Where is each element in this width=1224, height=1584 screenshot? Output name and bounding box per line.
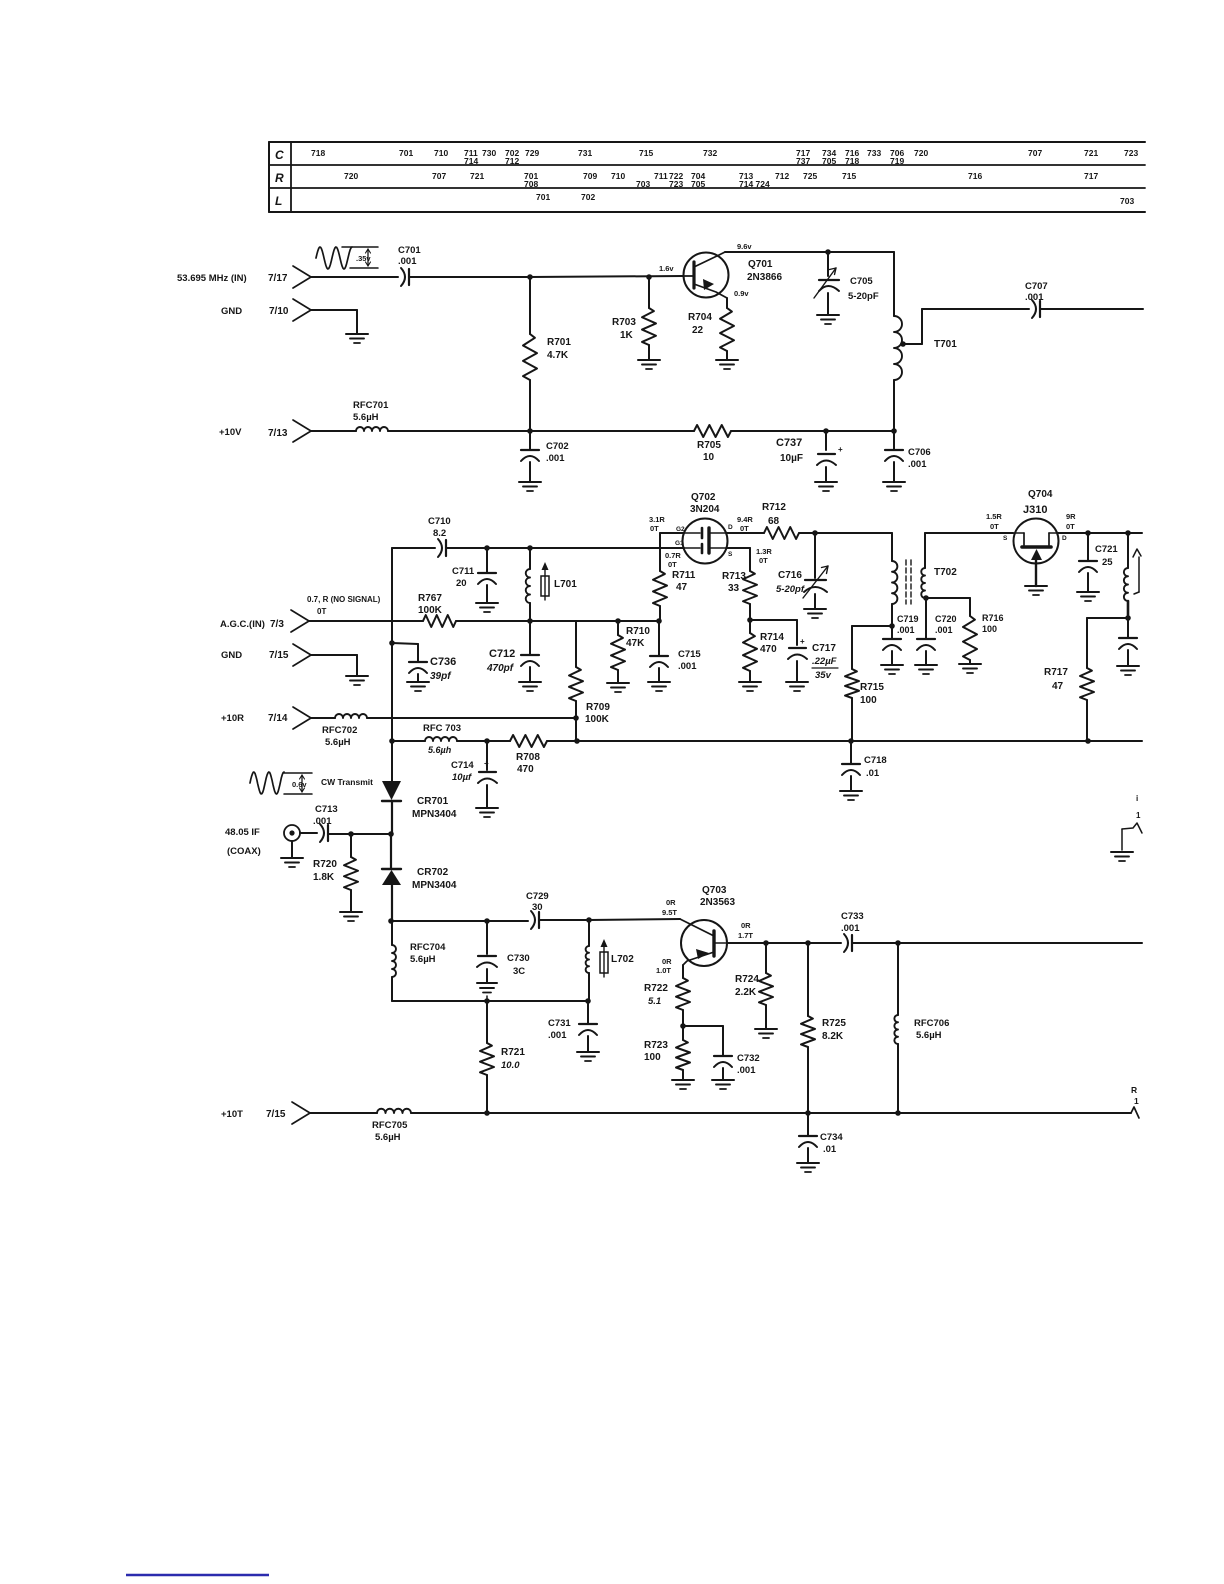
- connector coax 48.05 IF: [225, 825, 300, 857]
- inductor RFC703: [423, 723, 461, 755]
- svg-text:J310: J310: [1023, 504, 1047, 516]
- svg-text:R709: R709: [586, 702, 610, 713]
- ground R724: [755, 1029, 777, 1038]
- node L702 bottom: [585, 998, 591, 1004]
- wire C713 to bus: [329, 833, 391, 835]
- svg-text:2N3563: 2N3563: [700, 897, 735, 908]
- svg-text:C712: C712: [489, 648, 515, 660]
- diode CR701: [382, 781, 457, 834]
- svg-text:720: 720: [914, 148, 928, 158]
- capacitor C720: [917, 598, 957, 665]
- node y741 R709: [574, 738, 580, 744]
- resistor R704: [688, 298, 734, 360]
- svg-text:C716: C716: [778, 570, 802, 581]
- svg-text:9.6v: 9.6v: [737, 242, 752, 251]
- svg-text:C737: C737: [776, 437, 802, 449]
- label 1.6v: [659, 264, 674, 273]
- svg-text:S: S: [728, 551, 733, 558]
- svg-text:714 724: 714 724: [739, 179, 770, 189]
- capacitor C719: [883, 614, 919, 665]
- svg-text:R705: R705: [697, 440, 721, 451]
- svg-text:10µf: 10µf: [452, 772, 472, 783]
- svg-text:MPN3404: MPN3404: [412, 880, 457, 891]
- svg-text:737: 737: [796, 156, 810, 166]
- svg-text:D: D: [1062, 535, 1067, 542]
- resistor R721: [480, 1001, 525, 1113]
- svg-text:C714: C714: [451, 760, 474, 771]
- capacitor C731: [548, 1001, 597, 1052]
- resistor R717: [1044, 667, 1094, 741]
- label Q703 coll ann: [738, 921, 753, 940]
- label 0.9v: [734, 289, 749, 298]
- svg-text:G1: G1: [675, 540, 684, 547]
- svg-text:8.2: 8.2: [433, 528, 446, 539]
- svg-text:47: 47: [1052, 681, 1064, 692]
- node R713 bottom: [747, 617, 753, 623]
- svg-text:25: 25: [1102, 557, 1113, 568]
- node R703 top: [646, 274, 652, 280]
- node C706: [891, 428, 897, 434]
- svg-text:47: 47: [676, 582, 688, 593]
- capacitor C701: [398, 245, 421, 286]
- node R725 top: [805, 940, 811, 946]
- svg-text:1: 1: [1136, 811, 1141, 820]
- svg-text:100: 100: [982, 624, 997, 634]
- node R711 bottom: [656, 618, 662, 624]
- svg-text:470pf: 470pf: [486, 663, 515, 674]
- ground C711: [476, 603, 498, 612]
- svg-text:MPN3404: MPN3404: [412, 809, 457, 820]
- svg-text:0R: 0R: [741, 921, 751, 930]
- svg-text:R708: R708: [516, 752, 540, 763]
- svg-text:C705: C705: [850, 276, 873, 287]
- svg-text:701: 701: [399, 148, 413, 158]
- table row R values: [344, 171, 1098, 189]
- resistor R725: [801, 943, 846, 1113]
- svg-text:2.2K: 2.2K: [735, 987, 757, 998]
- svg-text:.01: .01: [866, 768, 880, 779]
- svg-text:100: 100: [860, 695, 877, 706]
- svg-text:10.0: 10.0: [501, 1060, 520, 1071]
- svg-text:1.3R: 1.3R: [756, 547, 772, 556]
- svg-text:(COAX): (COAX): [227, 846, 261, 857]
- capacitor C714: [451, 741, 497, 808]
- svg-text:709: 709: [583, 171, 597, 181]
- table row labels: [275, 148, 284, 208]
- ground C715: [648, 682, 670, 691]
- transformer T701: [894, 316, 957, 380]
- svg-text:+: +: [800, 637, 805, 646]
- label Q702 G1 bias: [665, 540, 684, 569]
- inductor RFC701: [353, 400, 389, 431]
- svg-text:729: 729: [525, 148, 539, 158]
- svg-text:5.6µH: 5.6µH: [375, 1132, 401, 1143]
- svg-text:0R: 0R: [666, 898, 676, 907]
- svg-text:7/15: 7/15: [266, 1109, 286, 1120]
- capacitor C736: [392, 643, 456, 682]
- wire R712 to T702: [799, 532, 892, 534]
- svg-text:701: 701: [536, 192, 550, 202]
- svg-text:A.G.C.(IN): A.G.C.(IN): [220, 619, 265, 630]
- wire left bus top: [391, 548, 393, 781]
- svg-text:L701: L701: [554, 579, 577, 590]
- svg-text:732: 732: [703, 148, 717, 158]
- capacitor C737: [776, 431, 843, 482]
- ground partial right: [1111, 852, 1133, 861]
- svg-text:i: i: [1136, 794, 1138, 803]
- svg-text:707: 707: [432, 171, 446, 181]
- resistor R710: [611, 621, 650, 683]
- svg-text:R711: R711: [672, 570, 696, 581]
- ground C712: [519, 682, 541, 691]
- svg-text:C706: C706: [908, 447, 931, 458]
- wire RFC703 seg: [392, 740, 425, 742]
- svg-text:.001: .001: [313, 816, 332, 827]
- svg-text:48.05 IF: 48.05 IF: [225, 827, 260, 838]
- svg-text:9.5T: 9.5T: [662, 908, 677, 917]
- node C702: [527, 428, 533, 434]
- svg-text:Q702: Q702: [691, 492, 716, 503]
- capacitor C734: [799, 1113, 843, 1163]
- svg-text:RFC706: RFC706: [914, 1018, 949, 1029]
- capacitor C707: [1025, 281, 1048, 318]
- svg-text:470: 470: [760, 644, 777, 655]
- svg-text:715: 715: [639, 148, 653, 158]
- ground C730 tied: [477, 983, 497, 1001]
- node L701 bottom: [527, 618, 533, 624]
- svg-text:1.6v: 1.6v: [659, 264, 674, 273]
- label Q703 emit ann: [656, 957, 672, 975]
- svg-text:717: 717: [1084, 171, 1098, 181]
- svg-text:0T: 0T: [668, 560, 677, 569]
- wire +10T a: [310, 1112, 377, 1114]
- wire C733 out: [898, 942, 1142, 944]
- node R721 bottom: [484, 1110, 490, 1116]
- svg-text:R713: R713: [722, 571, 746, 582]
- svg-text:2N3866: 2N3866: [747, 272, 782, 283]
- label Q702: [690, 492, 720, 515]
- svg-text:0.7, R (NO SIGNAL): 0.7, R (NO SIGNAL): [307, 595, 381, 604]
- node C736 junction: [389, 640, 395, 646]
- capacitor C730: [477, 921, 530, 983]
- svg-text:R767: R767: [418, 593, 442, 604]
- wire Q702 drain: [727, 532, 764, 534]
- svg-text:5-20pF: 5-20pF: [848, 291, 879, 302]
- node C730 top: [484, 918, 490, 924]
- ground R704: [716, 360, 738, 369]
- svg-text:100: 100: [644, 1052, 661, 1063]
- svg-text:730: 730: [482, 148, 496, 158]
- capacitor C705 variable: [814, 252, 879, 315]
- capacitor C713: [313, 804, 338, 842]
- svg-text:5.6µH: 5.6µH: [325, 737, 351, 748]
- sine symbol input: [316, 247, 378, 269]
- wire coax to C713: [300, 832, 317, 834]
- label Q702 S: [728, 547, 772, 565]
- wire G2 drop: [660, 533, 684, 571]
- table row L values: [536, 192, 1134, 206]
- wire to C733: [808, 942, 841, 944]
- wire RFC701 to R705: [388, 430, 694, 432]
- svg-text:0.9v: 0.9v: [734, 289, 749, 298]
- inductor RFC702: [322, 714, 367, 748]
- wire T701 bottom: [893, 380, 895, 431]
- node C716: [812, 530, 818, 536]
- svg-text:725: 725: [803, 171, 817, 181]
- connector 7/10 GND: [221, 299, 311, 321]
- resistor R712: [762, 502, 799, 539]
- svg-text:3C: 3C: [513, 966, 525, 977]
- node R724 top: [763, 940, 769, 946]
- svg-text:R725: R725: [822, 1018, 846, 1029]
- svg-text:C713: C713: [315, 804, 338, 815]
- svg-text:0.7R: 0.7R: [665, 551, 681, 560]
- capacitor C711: [452, 548, 496, 603]
- svg-text:R722: R722: [644, 983, 668, 994]
- inductor L701: [526, 548, 577, 621]
- connector 7/3 AGC: [220, 610, 309, 632]
- wire +10T b: [411, 1112, 1131, 1114]
- svg-text:9.4R: 9.4R: [737, 515, 753, 524]
- ground R716: [959, 664, 981, 673]
- svg-text:C717: C717: [812, 643, 836, 654]
- svg-text:R723: R723: [644, 1040, 668, 1051]
- ground C718: [840, 791, 862, 800]
- node C711: [484, 545, 490, 551]
- svg-text:10µF: 10µF: [780, 453, 803, 464]
- capacitor C729: [526, 891, 549, 929]
- svg-text:CR702: CR702: [417, 867, 449, 878]
- resistor R724: [735, 943, 773, 1029]
- svg-text:GND: GND: [221, 650, 242, 661]
- svg-text:4.7K: 4.7K: [547, 350, 569, 361]
- resistor partial right: [1131, 1085, 1139, 1118]
- wire R708 right: [547, 740, 577, 742]
- svg-text:0T: 0T: [990, 522, 999, 531]
- svg-text:D: D: [728, 524, 733, 531]
- svg-text:.22µF: .22µF: [812, 656, 837, 667]
- svg-text:5.6µh: 5.6µh: [428, 745, 452, 755]
- wire coll to C733: [766, 942, 808, 944]
- svg-text:T701: T701: [934, 339, 957, 350]
- inductor RFC705: [372, 1109, 411, 1143]
- svg-text:G2: G2: [676, 526, 685, 533]
- svg-text:702: 702: [581, 192, 595, 202]
- capacitor C706: [885, 431, 931, 482]
- node RFC703 left: [389, 738, 395, 744]
- svg-text:R: R: [1131, 1085, 1137, 1095]
- label Q704 src ann: [986, 512, 1008, 542]
- svg-text:100K: 100K: [585, 714, 610, 725]
- wire to C717: [750, 620, 797, 645]
- svg-text:731: 731: [578, 148, 592, 158]
- svg-text:C718: C718: [864, 755, 887, 766]
- svg-text:Q701: Q701: [748, 259, 773, 270]
- partial component right: [1122, 794, 1142, 850]
- wire Q703 emitter: [682, 965, 684, 978]
- wire R767 right: [456, 620, 660, 622]
- svg-text:35v: 35v: [815, 670, 832, 681]
- svg-text:C721: C721: [1095, 544, 1118, 555]
- ground C737: [815, 482, 837, 491]
- svg-text:.001: .001: [908, 459, 927, 470]
- svg-text:.001: .001: [546, 453, 565, 464]
- ground C734: [797, 1163, 819, 1172]
- svg-text:3.1R: 3.1R: [649, 515, 665, 524]
- wire y921: [391, 920, 528, 922]
- svg-text:703: 703: [1120, 196, 1134, 206]
- svg-text:R710: R710: [626, 626, 650, 637]
- transistor Q703: [680, 919, 727, 966]
- svg-text:RFC704: RFC704: [410, 942, 446, 953]
- resistor R723: [644, 1026, 690, 1080]
- node R722 bottom: [680, 1023, 686, 1029]
- svg-text:707: 707: [1028, 148, 1042, 158]
- svg-text:710: 710: [434, 148, 448, 158]
- svg-text:712: 712: [505, 156, 519, 166]
- svg-text:723: 723: [669, 179, 683, 189]
- svg-text:1.7T: 1.7T: [738, 931, 753, 940]
- wire C737 to C706: [826, 430, 894, 432]
- svg-text:RFC 703: RFC 703: [423, 723, 461, 734]
- wire Q701 collector: [725, 252, 894, 316]
- ground R710: [607, 683, 629, 692]
- svg-text:L: L: [275, 194, 282, 208]
- svg-text:+: +: [838, 445, 843, 454]
- ground C705: [817, 315, 839, 324]
- wire C710 left: [392, 547, 435, 549]
- svg-text:1.5R: 1.5R: [986, 512, 1002, 521]
- svg-text:C: C: [275, 148, 284, 162]
- svg-text:7/14: 7/14: [268, 713, 288, 724]
- svg-text:718: 718: [845, 156, 859, 166]
- node bus-osc junction: [388, 918, 394, 924]
- node T702 pri bottom: [889, 623, 895, 629]
- wire Q703 collector: [727, 942, 766, 944]
- svg-text:+: +: [484, 759, 489, 768]
- label Q704: [1023, 489, 1053, 516]
- node R717 bottom: [1085, 738, 1091, 744]
- svg-text:R715: R715: [860, 682, 884, 693]
- svg-text:.001: .001: [737, 1065, 756, 1076]
- svg-text:39pf: 39pf: [430, 671, 452, 682]
- svg-text:710: 710: [611, 171, 625, 181]
- node R715 bottom: [848, 738, 854, 744]
- svg-text:10: 10: [703, 452, 715, 463]
- svg-text:C715: C715: [678, 649, 701, 660]
- svg-text:C730: C730: [507, 953, 530, 964]
- wire T702 sec top: [925, 532, 1013, 534]
- svg-text:+10R: +10R: [221, 713, 244, 724]
- svg-text:53.695 MHz (IN): 53.695 MHz (IN): [177, 273, 247, 284]
- inductor L702: [586, 920, 635, 1001]
- svg-text:0T: 0T: [1066, 522, 1075, 531]
- svg-text:C736: C736: [430, 656, 456, 668]
- resistor R716: [963, 613, 1004, 664]
- capacitor C710: [428, 516, 451, 557]
- svg-text:.001: .001: [935, 625, 953, 635]
- connector 7/17 input: [177, 266, 311, 288]
- svg-text:30: 30: [532, 902, 543, 913]
- capacitor C712: [486, 621, 539, 682]
- node C734 junction: [805, 1110, 811, 1116]
- svg-text:C729: C729: [526, 891, 549, 902]
- ground C716: [804, 609, 826, 618]
- svg-text:R724: R724: [735, 974, 759, 985]
- svg-text:R712: R712: [762, 502, 786, 513]
- ground C720: [915, 665, 937, 674]
- svg-text:C731: C731: [548, 1018, 571, 1029]
- svg-text:R701: R701: [547, 337, 571, 348]
- resistor R713: [722, 571, 757, 620]
- svg-text:705: 705: [691, 179, 705, 189]
- svg-text:711: 711: [654, 171, 668, 181]
- wire C733 right: [853, 942, 898, 944]
- svg-text:714: 714: [464, 156, 478, 166]
- node C705: [825, 249, 831, 255]
- label Q702 G2 bias: [649, 515, 685, 533]
- svg-text:.001: .001: [398, 256, 417, 267]
- ground 7/15: [346, 676, 368, 685]
- node R720 top: [348, 831, 354, 837]
- svg-text:R703: R703: [612, 317, 636, 328]
- svg-text:1.0T: 1.0T: [656, 966, 671, 975]
- capacitor C717: [788, 637, 838, 682]
- wire input: [311, 276, 398, 278]
- svg-text:0.6v: 0.6v: [292, 780, 307, 789]
- svg-text:.001: .001: [841, 923, 860, 934]
- wire T701 tap to C707: [903, 309, 1029, 344]
- resistor R709: [569, 621, 610, 725]
- svg-text:C732: C732: [737, 1053, 760, 1064]
- svg-text:7/3: 7/3: [270, 619, 284, 630]
- ground C702: [519, 482, 541, 491]
- svg-text:C707: C707: [1025, 281, 1048, 292]
- wire C710 to G1: [447, 547, 684, 549]
- wire C701 to Q701 base: [410, 276, 683, 277]
- svg-text:0T: 0T: [740, 524, 749, 533]
- svg-text:0R: 0R: [662, 957, 672, 966]
- svg-text:721: 721: [1084, 148, 1098, 158]
- wire RFC703 to R708: [457, 740, 510, 742]
- capacitor C715: [650, 621, 701, 682]
- resistor R701: [523, 277, 571, 431]
- svg-text:.001: .001: [897, 625, 915, 635]
- transformer T702 primary: [892, 533, 897, 626]
- ground R703: [638, 360, 660, 369]
- label Q703: [700, 885, 735, 908]
- svg-text:5.6µH: 5.6µH: [410, 954, 436, 965]
- node out coil top: [1125, 530, 1131, 536]
- wire to R717: [1087, 618, 1128, 668]
- svg-text:RFC705: RFC705: [372, 1120, 408, 1131]
- node C721: [1085, 530, 1091, 536]
- svg-text:.001: .001: [1025, 292, 1044, 303]
- ground 7/10: [346, 334, 368, 343]
- wire C707 out: [1041, 308, 1143, 310]
- svg-text:703: 703: [636, 179, 650, 189]
- ground C706: [883, 482, 905, 491]
- node R710 top: [615, 618, 621, 624]
- node C714: [484, 738, 490, 744]
- svg-text:720: 720: [344, 171, 358, 181]
- connector 7/15 +10T: [221, 1102, 310, 1124]
- wire Q702 source: [727, 548, 750, 571]
- svg-text:705: 705: [822, 156, 836, 166]
- wire AGC to R767: [309, 620, 423, 622]
- wire R709bot drop: [575, 718, 577, 741]
- transformer T702 core: [906, 560, 911, 604]
